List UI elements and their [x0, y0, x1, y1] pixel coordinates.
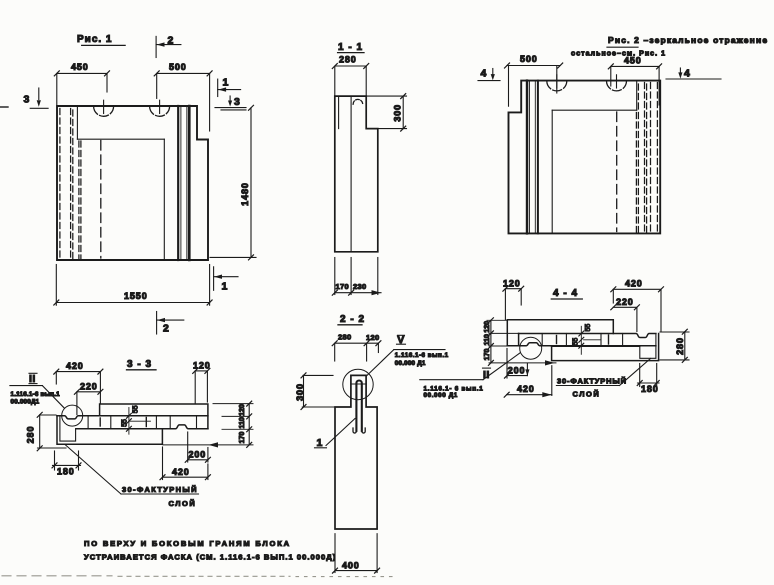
title Рис. 2 - зеркальное отражение: [607, 35, 768, 47]
svg-text:180: 180: [641, 384, 659, 394]
svg-text:420: 420: [66, 361, 84, 371]
svg-text:280: 280: [338, 333, 351, 342]
section marker 4 (right): [666, 68, 721, 80]
facing layer lines (Fig.2 left side): [527, 81, 538, 234]
arrow on 4-4 bottom extension line: [545, 360, 555, 365]
4-4 lower band top edge: [552, 345, 640, 347]
dimension 420 (3-3 bottom right): [160, 447, 210, 480]
hidden edge (long dash, centre-left): [100, 141, 102, 259]
dimension stack 120/110/170 (3-3 right): [239, 401, 252, 447]
inner recess left edge (Fig.2): [551, 110, 553, 233]
svg-text:300: 300: [295, 383, 305, 401]
lifting loop arc 1 (Fig.2): [547, 75, 567, 91]
svg-text:1480: 1480: [240, 182, 250, 206]
leader 30-фактурный слой (3-3): [65, 445, 199, 509]
svg-text:1: 1: [317, 437, 323, 449]
svg-text:450: 450: [624, 56, 642, 66]
inner recess top edge: [77, 138, 164, 140]
svg-text:120: 120: [193, 360, 211, 370]
lifting loop bar (2-2): [353, 381, 365, 434]
svg-text:230: 230: [353, 282, 366, 291]
title Рис. 1: [77, 34, 125, 45]
title 2-2: [338, 314, 365, 325]
svg-text:170: 170: [336, 282, 349, 291]
svg-text:2 - 2: 2 - 2: [340, 314, 365, 325]
dimension 280 (3-3 left): [26, 412, 67, 451]
svg-text:280: 280: [26, 426, 36, 444]
svg-text:остальное–см. Рис. 1: остальное–см. Рис. 1: [571, 51, 666, 58]
svg-text:220: 220: [616, 297, 634, 307]
svg-text:СЛОЙ: СЛОЙ: [573, 390, 601, 399]
svg-text:4: 4: [481, 68, 487, 80]
dimension 420 (4-4 top right): [611, 279, 664, 332]
inner recess edge (vertical, top left): [76, 106, 78, 139]
svg-text:УСТРАИВАЕТСЯ ФАСКА (СМ. 1.116.: УСТРАИВАЕТСЯ ФАСКА (СМ. 1.116.1-6 ВЫП.1 …: [84, 553, 336, 562]
4-4 facing layer inner L-line: [640, 335, 656, 359]
svg-text:170: 170: [239, 432, 246, 444]
dimension 120 (3-3 top right): [193, 360, 211, 403]
svg-text:420: 420: [517, 384, 535, 394]
dimension 200 (3-3 lower right): [185, 432, 210, 462]
section marker 3 (right): [215, 96, 246, 110]
svg-text:30-ФАКТУРНЫЙ: 30-ФАКТУРНЫЙ: [557, 377, 627, 386]
3-3 middle band bottom edge with key notch: [76, 425, 208, 429]
title 3-3: [127, 359, 157, 370]
hidden edge long dash (Fig.2 centre-right): [616, 112, 618, 232]
svg-text:55: 55: [572, 338, 579, 346]
4-4 anchor ticks: [557, 335, 609, 344]
section 1-1 outline: [335, 96, 378, 252]
dimension 420 (4-4 bottom left): [504, 366, 552, 398]
svg-text:1 - 1: 1 - 1: [338, 42, 363, 53]
svg-text:00.000Д1: 00.000Д1: [11, 399, 40, 406]
svg-text:Рис. 1: Рис. 1: [77, 34, 113, 45]
dimension 220 (3-3 top): [74, 382, 103, 415]
scan artifact bottom edge: [2, 575, 392, 578]
section marker 2 (top): [156, 35, 181, 58]
loop seen in section 1-1: [353, 99, 363, 104]
svg-text:500: 500: [520, 54, 538, 64]
detail marker V with label (2-2): [367, 334, 449, 375]
section 2-2 outline: [335, 375, 377, 529]
section 1-1 inner edge left: [338, 96, 340, 129]
svg-text:55: 55: [585, 324, 592, 332]
svg-text:420: 420: [172, 467, 190, 477]
inner recess right edge: [163, 139, 165, 260]
3-3 anchor centreline: [130, 420, 151, 422]
svg-text:1.116.1-6 вып.1: 1.116.1-6 вып.1: [395, 352, 449, 359]
svg-text:3: 3: [24, 94, 30, 106]
section marker 4 (left): [478, 68, 500, 81]
detail circle (2-2 loop): [343, 369, 373, 399]
note paragraph: [84, 539, 336, 562]
block outline Fig.2: [509, 81, 661, 234]
svg-text:4: 4: [684, 68, 690, 80]
arrow on bottom extension line: [209, 442, 219, 447]
3-3 upper strip outline: [100, 404, 208, 429]
lifting loop arc 1: [94, 100, 114, 116]
leader 30-фактурный слой (4-4): [556, 359, 650, 399]
dimension 300 (2-2 left): [295, 373, 335, 410]
4-4 lower band outline: [552, 334, 659, 361]
svg-text:120: 120: [239, 404, 246, 416]
4-4 left side extension lines: [487, 320, 556, 363]
3-3 middle band top edge with loop groove: [57, 416, 208, 419]
svg-text:200: 200: [508, 365, 526, 375]
dimension 420 (3-3 top): [54, 361, 103, 403]
svg-text:3 - 3: 3 - 3: [127, 359, 152, 370]
svg-text:00.000 Д1: 00.000 Д1: [424, 392, 458, 399]
leader 1 (loop bar position): [315, 419, 356, 450]
section 1-1 inner edge centre: [350, 96, 352, 252]
svg-text:280: 280: [339, 55, 357, 65]
dimension 500 (Fig.2 top left): [505, 54, 563, 106]
detail marker II with label (left of 3-3): [10, 373, 65, 408]
dimension stack 120/110/170 (4-4 left): [484, 318, 493, 366]
dimension 500 (top): [154, 62, 212, 131]
4-4 middle band bottom edge with loop groove: [507, 343, 656, 346]
dimension 1550 (bottom): [54, 265, 212, 306]
section marker 1 (bottom right): [214, 267, 238, 293]
dimension 1480 (right): [210, 105, 256, 260]
svg-text:2: 2: [168, 35, 174, 47]
detail circle (4-4 loop groove): [520, 337, 542, 359]
svg-text:55: 55: [133, 405, 140, 413]
dimension 280 (section 1-1 top): [332, 55, 368, 96]
svg-text:1: 1: [223, 77, 229, 89]
dimension 180 (3-3 bottom left): [52, 451, 81, 477]
4-4 anchor centreline: [584, 339, 602, 341]
svg-text:120: 120: [503, 278, 521, 288]
4-4 middle band top edge with key notch: [519, 334, 656, 338]
svg-text:220: 220: [80, 382, 98, 392]
section marker 2 (bottom): [157, 312, 184, 335]
svg-text:2: 2: [163, 323, 169, 335]
4-4 upper strip outline: [507, 320, 613, 346]
svg-text:110: 110: [239, 417, 246, 428]
svg-text:120: 120: [366, 333, 379, 342]
groove far edge line (2-2 neck): [351, 383, 366, 385]
dimension 55/55 (4-4): [572, 324, 592, 355]
svg-text:400: 400: [342, 561, 360, 571]
section marker 3 (left): [24, 88, 49, 108]
svg-text:280: 280: [675, 337, 685, 355]
svg-text:1.116.1-6 вып.1: 1.116.1-6 вып.1: [11, 391, 61, 398]
dimension 220 (4-4 top): [611, 297, 640, 332]
svg-text:ПО ВЕРХУ И БОКОВЫМ ГРАНЯМ БЛОК: ПО ВЕРХУ И БОКОВЫМ ГРАНЯМ БЛОКА: [84, 539, 291, 548]
dimension 120 (4-4 top left): [503, 278, 524, 319]
dimension 55/55 (3-3): [121, 405, 139, 434]
svg-text:180: 180: [57, 467, 75, 477]
detail circle (3-3 loop groove): [62, 405, 83, 426]
dimension 300 (section 1-1 right): [367, 94, 407, 132]
svg-text:420: 420: [625, 279, 643, 289]
svg-text:4 - 4: 4 - 4: [553, 288, 578, 299]
inner recess edge vertical (Fig.2 top right): [636, 81, 638, 111]
lifting loop arc 2 (Fig.2): [607, 75, 627, 91]
dimensions 170 230 (section 1-1 bottom): [332, 258, 381, 296]
dimension 280 (4-4 right): [660, 329, 689, 362]
svg-text:300: 300: [393, 104, 403, 122]
dimensions 280 120 (2-2 top): [332, 333, 381, 362]
svg-text:200: 200: [189, 450, 207, 460]
lifting loop arc 2: [150, 100, 170, 116]
svg-text:СЛОЙ: СЛОЙ: [169, 499, 197, 508]
detail marker II with label (right of 2-2): [420, 353, 520, 399]
svg-text:170: 170: [484, 349, 491, 361]
svg-text:1: 1: [222, 281, 228, 293]
svg-text:55: 55: [121, 419, 128, 427]
svg-text:450: 450: [71, 62, 89, 72]
section marker 1 (top right): [218, 77, 241, 97]
svg-text:110: 110: [484, 334, 491, 345]
inner recess top edge (Fig.2): [552, 109, 637, 111]
dimension 450 (top left): [54, 62, 109, 105]
facing layer lines (right side): [178, 106, 189, 260]
dimension 450 (Fig.2 top right): [608, 56, 661, 106]
4-4 band dividers: [542, 334, 622, 346]
svg-text:3: 3: [234, 96, 240, 108]
3-3 right side extension lines: [163, 404, 253, 445]
3-3 band dividers: [88, 416, 196, 429]
dimension 200 (4-4 lower left): [505, 349, 530, 379]
svg-text:1550: 1550: [124, 291, 148, 301]
svg-text:30-ФАКТУРНЫЙ: 30-ФАКТУРНЫЙ: [122, 485, 198, 494]
svg-text:00.000 Д1: 00.000 Д1: [395, 360, 426, 367]
title 1-1: [338, 42, 364, 53]
3-3 facing layer inner L-line: [60, 417, 76, 442]
hidden edges dashed (Fig.2 right side): [636, 83, 657, 233]
3-3 anchor ticks: [100, 418, 146, 427]
hidden edges (dashed, left side): [60, 109, 81, 259]
4-4 middle band left edge: [518, 334, 520, 346]
dimension 180 (4-4 bottom right): [637, 364, 659, 395]
scan artifact left edge: [0, 106, 8, 108]
dimension 400 (2-2 bottom): [333, 534, 380, 573]
3-3 left end and lower band outline: [57, 416, 162, 444]
svg-text:120: 120: [484, 321, 491, 333]
svg-text:500: 500: [169, 62, 187, 72]
block outline Fig.1: [57, 106, 208, 260]
title 4-4: [551, 288, 582, 299]
svg-text:Рис. 2 –зеркальное отражение: Рис. 2 –зеркальное отражение: [608, 35, 768, 45]
